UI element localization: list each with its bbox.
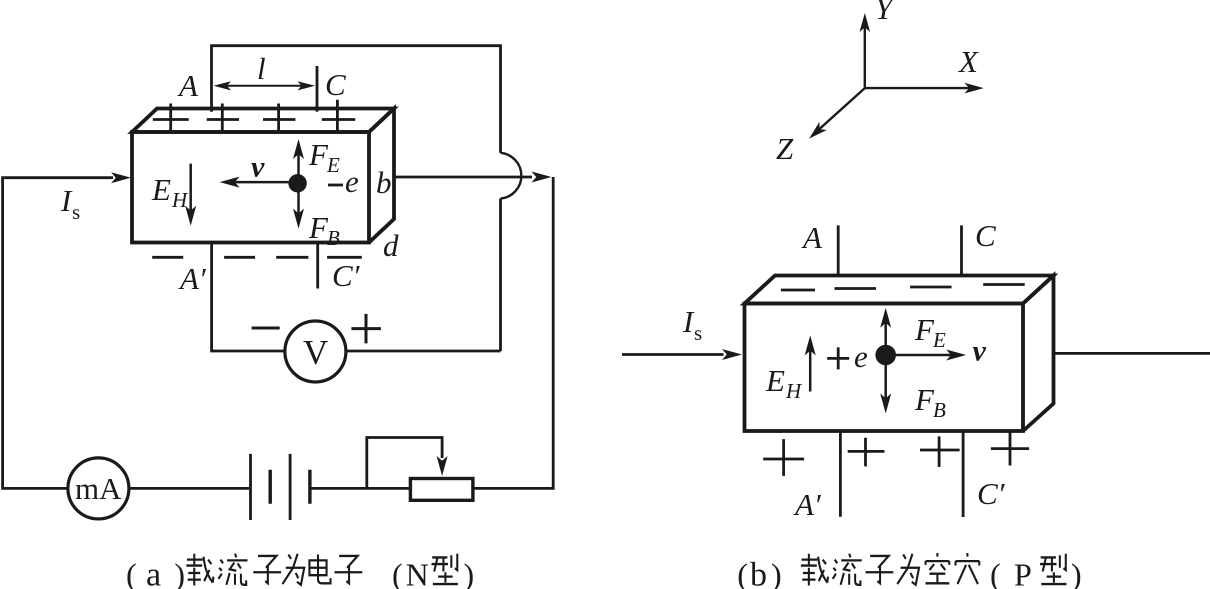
svg-text:): ) bbox=[464, 557, 475, 589]
svg-text:s: s bbox=[72, 200, 80, 224]
svg-text:mA: mA bbox=[75, 471, 122, 506]
svg-text:A′: A′ bbox=[178, 261, 207, 296]
svg-text:e: e bbox=[854, 339, 868, 374]
svg-text:P: P bbox=[1014, 557, 1032, 589]
svg-text:e: e bbox=[345, 164, 359, 199]
svg-text:F: F bbox=[308, 137, 329, 172]
svg-text:C: C bbox=[975, 218, 996, 253]
svg-text:Z: Z bbox=[776, 131, 794, 166]
svg-text:H: H bbox=[785, 379, 803, 403]
svg-text:E: E bbox=[932, 328, 946, 352]
svg-text:N: N bbox=[406, 557, 429, 589]
svg-text:b: b bbox=[750, 557, 767, 589]
svg-text:F: F bbox=[914, 382, 935, 417]
svg-text:C′: C′ bbox=[977, 476, 1006, 511]
svg-text:A′: A′ bbox=[793, 487, 822, 522]
svg-text:l: l bbox=[257, 51, 266, 86]
svg-text:C: C bbox=[325, 67, 346, 102]
svg-text:d: d bbox=[383, 228, 399, 263]
svg-text:(: ( bbox=[990, 557, 1001, 589]
svg-text:Y: Y bbox=[875, 0, 895, 26]
svg-text:(: ( bbox=[392, 557, 403, 589]
svg-text:V: V bbox=[303, 333, 328, 372]
svg-text:v: v bbox=[251, 151, 265, 184]
svg-text:E: E bbox=[765, 363, 785, 398]
svg-text:s: s bbox=[694, 321, 702, 345]
svg-text:X: X bbox=[957, 44, 979, 79]
svg-text:C′: C′ bbox=[332, 258, 361, 293]
svg-text:F: F bbox=[914, 312, 935, 347]
svg-text:E: E bbox=[151, 172, 171, 207]
svg-text:(: ( bbox=[737, 557, 748, 589]
svg-text:E: E bbox=[326, 153, 340, 177]
svg-text:H: H bbox=[171, 188, 189, 212]
svg-text:): ) bbox=[174, 557, 185, 589]
svg-text:B: B bbox=[933, 398, 946, 422]
svg-text:): ) bbox=[1071, 557, 1082, 589]
svg-text:a: a bbox=[146, 557, 161, 589]
svg-text:(: ( bbox=[126, 557, 137, 589]
svg-text:): ) bbox=[771, 557, 782, 589]
svg-text:A: A bbox=[177, 68, 199, 103]
svg-text:F: F bbox=[308, 210, 329, 245]
svg-text:B: B bbox=[327, 226, 340, 250]
svg-text:v: v bbox=[973, 335, 987, 368]
svg-text:b: b bbox=[376, 165, 392, 200]
svg-text:A: A bbox=[801, 220, 823, 255]
